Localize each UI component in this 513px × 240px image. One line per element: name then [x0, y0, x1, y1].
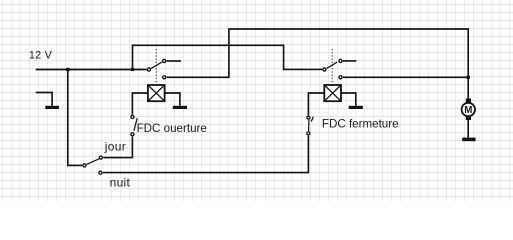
- relay contact RC1 upper contact: [163, 59, 166, 62]
- switch FDC1 ouverture: bottom terminal: [131, 133, 134, 136]
- svg-text:FDC fermeture: FDC fermeture: [322, 118, 399, 131]
- ground G0 bar: [45, 106, 59, 109]
- switch FDC2 top terminal: [307, 116, 310, 119]
- wire selector feed: down from rail to selector pole: [68, 70, 82, 166]
- wire nuit contact to FDC fermeture: [103, 136, 309, 173]
- wire RC1 lower contact to motor node (up and over): [167, 29, 469, 99]
- wire RC1 upper stub (unused): [167, 60, 181, 62]
- svg-text:FDC ouerture: FDC ouerture: [137, 122, 207, 135]
- coil K1 cross: [148, 85, 165, 101]
- node junction dot at motor: [467, 76, 470, 79]
- ground G1 bar: [173, 106, 187, 109]
- switch S1 contact nuit: [99, 171, 102, 174]
- motor M1 body: [462, 103, 475, 116]
- wire coil K2 to ground: [341, 93, 356, 106]
- coil K1 box: [148, 85, 165, 101]
- relay contact RC2 lower contact: [339, 76, 342, 79]
- relay contact RC1 blade (closed to upper): [151, 62, 162, 68]
- relay contact RC2 upper contact: [339, 59, 342, 62]
- node junction dot left (to day/night selector): [66, 68, 69, 71]
- coil K2 box: [324, 85, 341, 101]
- relay contact RC2 blade (closed to upper): [327, 62, 338, 68]
- svg-text:nuit: nuit: [110, 176, 131, 190]
- svg-text:12 V: 12 V: [29, 49, 53, 61]
- relay contact RC1 lower contact: [163, 76, 166, 79]
- switch S1 blade (pole to jour): [87, 159, 100, 165]
- switch S1 contact jour: [99, 156, 102, 159]
- switch FDC2 handle tick: [311, 117, 313, 122]
- wire RC2 lower contact to motor node: [343, 76, 468, 78]
- switch FDC1 blade (open): [134, 118, 137, 131]
- coil K2 cross: [324, 85, 341, 101]
- node junction dot mid (branch to relay 2): [131, 68, 134, 71]
- ground G3 bar: [462, 138, 475, 142]
- ground G2 bar: [349, 106, 363, 109]
- switch FDC2 fermeture: bottom terminal: [307, 132, 310, 135]
- switch S1 day/night selector: pole: [83, 164, 86, 167]
- linkage dotted line relay 2: [331, 49, 333, 84]
- motor M1 top terminal nub: [466, 99, 471, 103]
- relay contact RC1: pole: [147, 68, 150, 71]
- wire coil K1 to ground: [165, 93, 180, 106]
- wire FDC ouverture to coil K1: [132, 93, 148, 115]
- linkage dotted line relay 1: [155, 49, 157, 84]
- relay contact RC2: pole: [323, 68, 326, 71]
- switch FDC1 top terminal: [131, 115, 134, 118]
- wire main 12V rail: [36, 69, 147, 71]
- svg-text:jour: jour: [104, 140, 126, 154]
- switch FDC2 blade (closed): [308, 120, 310, 131]
- motor M1 bottom terminal nub: [466, 116, 471, 120]
- wire jour contact to FDC ouverture: [103, 137, 132, 158]
- wire FDC fermeture to coil K2: [308, 93, 324, 115]
- ground G0 stub under supply: [36, 93, 52, 106]
- svg-text:M: M: [464, 105, 472, 116]
- wire RC2 upper stub (unused): [343, 60, 357, 62]
- wire motor to ground: [467, 120, 469, 138]
- wire branch to relay 2 pole: [133, 45, 323, 69]
